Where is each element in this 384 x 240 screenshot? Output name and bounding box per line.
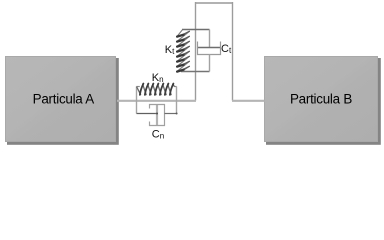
spring Kt coil thick front strokes [177, 31, 190, 72]
wire Kt/Ct bottom bar [181, 71, 210, 73]
damper Ct rod lower [209, 55, 211, 72]
junction dot Cn bracket [176, 113, 178, 115]
wire Kn spring stub right [174, 86, 177, 88]
wire Kn spring stub left [137, 86, 140, 88]
wire Kn bracket left [136, 87, 138, 114]
spring Kn coil thin back strokes [137, 84, 175, 96]
svg-text:Ct: Ct [221, 43, 232, 55]
particle A box [6, 57, 116, 142]
spring Kn coil thick front strokes [140, 84, 174, 95]
svg-text:Cn: Cn [152, 129, 164, 141]
wire Kt/Ct top bar [182, 29, 210, 31]
damper Cn rod right [165, 113, 177, 115]
damper Cn piston plate [156, 104, 158, 126]
particle B shadow [266, 58, 381, 145]
damper Ct rod upper [209, 30, 211, 48]
damper Cn cup [150, 105, 165, 126]
wire right rail [232, 2, 234, 101]
wire left rail [195, 2, 197, 101]
svg-text:Kt: Kt [165, 44, 175, 56]
svg-text:Particula A: Particula A [33, 92, 95, 107]
damper Ct piston plate [198, 47, 221, 49]
wire main line A to rail [117, 100, 196, 102]
wire Kn bracket right [176, 87, 178, 114]
particle B box [265, 57, 378, 142]
damper Cn rod left [137, 113, 158, 115]
svg-text:Kn: Kn [152, 72, 164, 84]
wire top bracket bar [196, 2, 233, 4]
wire rail to B [232, 100, 265, 102]
spring Kt coil thin back strokes [176, 30, 189, 72]
particle A shadow [7, 58, 119, 145]
damper Ct cup [198, 42, 221, 55]
svg-text:Particula B: Particula B [290, 92, 352, 107]
junction dot Cn plate [156, 113, 158, 115]
